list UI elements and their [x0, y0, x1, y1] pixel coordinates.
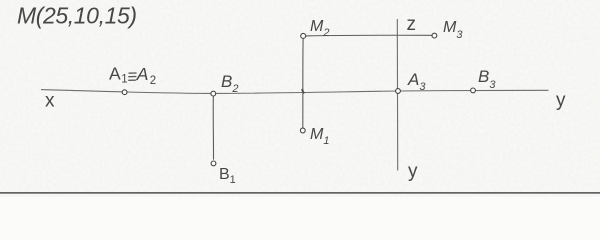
svg-text:z: z — [407, 14, 417, 35]
junction tick at x-axis and M recall line crossing — [302, 90, 303, 93]
point M1 — [300, 128, 305, 133]
point B1 — [211, 161, 216, 166]
svg-text:y: y — [556, 90, 566, 111]
point A3 — [396, 89, 401, 94]
wire M2-M3 horizontal recall line — [306, 34, 432, 37]
wire B2-B1 vertical recall line — [212, 96, 214, 160]
point B3 — [471, 88, 476, 93]
point M2 — [301, 33, 306, 38]
svg-text:x: x — [45, 91, 55, 112]
svg-text:2: 2 — [150, 75, 156, 87]
svg-text:y: y — [408, 161, 418, 182]
z-y vertical axis — [396, 19, 398, 171]
point B2 — [211, 91, 216, 96]
point M3 — [432, 33, 437, 38]
identity symbol (triple bar) — [128, 73, 136, 80]
bottom scan edge line — [0, 192, 600, 194]
svg-text:A: A — [109, 64, 121, 84]
x-axis (ground line) — [41, 90, 549, 94]
svg-text:A: A — [136, 64, 149, 84]
svg-text:M(25,10,15): M(25,10,15) — [17, 3, 137, 29]
wire M2-M1 vertical recall line — [302, 38, 304, 128]
point A1=A2 — [122, 90, 127, 95]
svg-text:1: 1 — [121, 74, 127, 86]
